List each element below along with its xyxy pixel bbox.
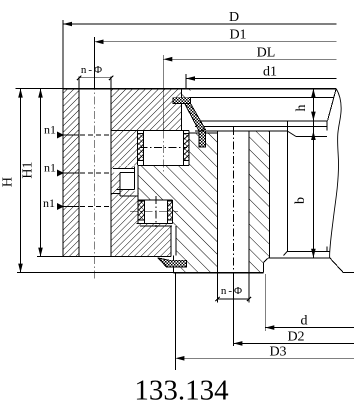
left bolt hole centerline — [94, 82, 96, 280]
svg-text:h: h — [294, 105, 309, 112]
break wavy line — [330, 89, 342, 258]
left ring top plate right edge — [180, 89, 182, 131]
line under radial roller — [140, 225, 172, 227]
right ring bottom flange left face — [173, 256, 175, 273]
upper seal white backing — [173, 98, 206, 147]
upper seal tail — [199, 131, 205, 147]
b arrow top — [311, 131, 316, 140]
right ring bottom right chamfer — [330, 258, 343, 272]
n1 line 1 solid — [57, 134, 79, 136]
svg-text:n-Φ: n-Φ — [221, 285, 244, 297]
svg-text:d1: d1 — [263, 65, 277, 80]
upper roller left cage block — [138, 134, 144, 161]
lower seal wedge — [158, 258, 186, 267]
n-phi top dimension line — [79, 77, 111, 79]
D1 arrow — [95, 40, 104, 45]
D3 dimension line — [175, 357, 354, 359]
right bolt hole right edge — [248, 131, 250, 303]
left ring outer face — [62, 89, 64, 257]
svg-text:n1: n1 — [44, 161, 56, 175]
upper seal top bar — [173, 98, 191, 104]
right ring upper band lower line — [189, 97, 333, 99]
upper roller right face line — [182, 130, 184, 165]
radial roller left race face — [137, 200, 139, 224]
right ring bottom step vertical — [263, 263, 265, 273]
gear tip top vertical — [326, 121, 328, 131]
radial roller race top — [138, 199, 172, 201]
n1 arrow 3 — [57, 203, 64, 210]
left bolt hole right edge — [110, 77, 112, 257]
radial roller left cage block — [138, 201, 144, 220]
radial roller right race face — [171, 200, 173, 224]
svg-text:D3: D3 — [269, 345, 286, 360]
right ring nose — [138, 166, 218, 200]
H1 dimension line — [40, 89, 42, 257]
svg-text:D1: D1 — [229, 28, 246, 43]
loading plug groove white — [113, 169, 135, 173]
left ring upper plate hatched — [111, 89, 181, 131]
gear tip bottom vertical — [326, 247, 328, 252]
plug top line — [113, 168, 135, 170]
right bolt hole left edge — [216, 131, 218, 303]
loading plug body white — [120, 173, 135, 190]
upper roller box right edge — [188, 130, 190, 165]
gear tooth top chamfer — [287, 131, 296, 137]
plug right edge — [134, 167, 136, 190]
upper roller horizontal centerline — [140, 147, 188, 149]
radial roller left face line — [143, 200, 145, 224]
right ring bottom flange left of hole — [174, 256, 218, 273]
radial roller right cage block — [167, 201, 172, 220]
radial roller race bottom — [137, 222, 173, 224]
plug right clearance white — [135, 166, 138, 196]
h arrow bottom — [311, 112, 316, 121]
n-phi top tick right — [109, 76, 113, 80]
svg-text:n-Φ: n-Φ — [81, 64, 104, 76]
DL extension line — [162, 55, 164, 130]
left ring plug zone block — [111, 166, 138, 193]
right ring below radial roller — [172, 200, 217, 226]
n1 arrow 1 — [57, 132, 64, 139]
svg-text:D2: D2 — [287, 330, 304, 345]
radial roller horizontal centerline — [130, 210, 178, 212]
n1 arrow 2 — [57, 170, 64, 177]
b arrow bottom — [311, 249, 316, 258]
plug second line — [120, 172, 135, 174]
left ring lower mid block — [111, 193, 139, 223]
right ring bottom step chamfer — [264, 258, 269, 263]
top surface extension to left — [16, 88, 64, 90]
right ring bottom edge right — [343, 271, 354, 273]
gear tooth top line — [296, 136, 327, 138]
right ring lip above seal — [181, 89, 190, 98]
D extension line — [62, 20, 64, 89]
n1 line 3 dashed — [80, 206, 110, 208]
gear tooth bottom line — [287, 250, 329, 252]
D arrow — [63, 22, 72, 27]
gear zone line2 — [195, 125, 327, 127]
d1 arrow — [186, 76, 195, 81]
bottom extension line for H — [17, 272, 174, 274]
H1 arrow bottom — [38, 248, 43, 257]
svg-text:D: D — [229, 10, 239, 25]
svg-text:H1: H1 — [21, 161, 36, 178]
radial roller vertical centerline — [155, 196, 157, 227]
D2 arrow — [233, 341, 242, 346]
D2 dimension line — [233, 342, 354, 344]
right bolt hole centerline — [232, 127, 234, 280]
svg-text:b: b — [293, 197, 308, 204]
d dimension line — [265, 327, 354, 329]
gear blank top chamfer — [328, 89, 337, 121]
upper roller vertical centerline — [162, 130, 164, 172]
n1 line 2 solid — [57, 172, 79, 174]
upper roller left face line — [142, 130, 144, 165]
right ring step at seal — [189, 132, 217, 134]
plug bottom line — [116, 189, 134, 191]
left bolt hole left edge — [78, 77, 80, 257]
radial roller right face line — [166, 200, 168, 224]
h b shared dimension line — [312, 89, 314, 258]
D1 dimension line — [95, 41, 337, 43]
upper roller race top line — [111, 129, 189, 131]
D3 extension line — [174, 273, 176, 370]
n-phi bottom dimension line — [217, 298, 249, 300]
d1 dimension line — [186, 78, 337, 80]
svg-text:H: H — [1, 177, 16, 187]
DL arrow — [163, 57, 172, 62]
d extension line — [264, 274, 266, 331]
d1 extension line — [185, 74, 187, 89]
split step vertical — [119, 190, 121, 196]
svg-text:d: d — [301, 314, 308, 329]
n1 line 3 solid — [57, 206, 79, 208]
n-phi bottom tick left — [215, 297, 219, 301]
H dimension line — [20, 89, 22, 273]
DL dimension line — [163, 58, 336, 60]
gear root vertical — [286, 121, 288, 251]
split line lower right — [120, 195, 138, 197]
n-phi top tick left — [77, 76, 81, 80]
d arrow — [265, 325, 274, 330]
upper roller box left edge — [137, 130, 139, 165]
upper roller right cage block — [183, 134, 189, 161]
H arrow top — [18, 89, 23, 98]
gear tooth bottom chamfer — [284, 251, 288, 255]
D2 extension line — [232, 280, 234, 346]
top surface line — [63, 88, 336, 90]
H arrow bottom — [18, 264, 23, 273]
D dimension line — [63, 23, 337, 25]
svg-text:n1: n1 — [44, 123, 56, 137]
gap between rings left face — [170, 226, 172, 256]
D1 extension line — [94, 37, 96, 89]
gap between rings right face — [175, 226, 177, 255]
H1 arrow top — [38, 89, 43, 98]
gear rim inner vertical — [268, 131, 270, 258]
left ring split line — [111, 192, 120, 194]
D3 arrow — [175, 356, 184, 361]
plug left edge — [119, 173, 121, 190]
right ring lower neck — [176, 226, 217, 255]
left ring bottom block — [111, 224, 171, 257]
svg-text:DL: DL — [257, 46, 276, 61]
gear zone line3 — [195, 130, 287, 132]
svg-text:n1: n1 — [43, 196, 55, 210]
left ring bottom surface — [37, 256, 171, 258]
n1 line 1 dashed — [80, 134, 110, 136]
right ring block above nose — [189, 133, 217, 166]
right ring right of bolt hole — [249, 131, 269, 258]
h arrow top — [311, 89, 316, 98]
right ring bottom right of hole — [249, 258, 264, 273]
upper seal diagonal band — [185, 104, 206, 131]
n-phi bottom tick right — [247, 297, 251, 301]
svg-text:133.134: 133.134 — [134, 375, 229, 407]
right ring bottom surface — [174, 272, 264, 274]
left ring outer column hatched — [63, 89, 79, 257]
n1 line 2 dashed — [80, 172, 110, 174]
gear zone line1 — [200, 120, 327, 122]
left ring mid section beside upper roller — [111, 130, 138, 165]
upper roller race bottom line — [138, 165, 189, 167]
right ring lower step surface — [269, 257, 330, 259]
nose left face — [137, 166, 139, 201]
